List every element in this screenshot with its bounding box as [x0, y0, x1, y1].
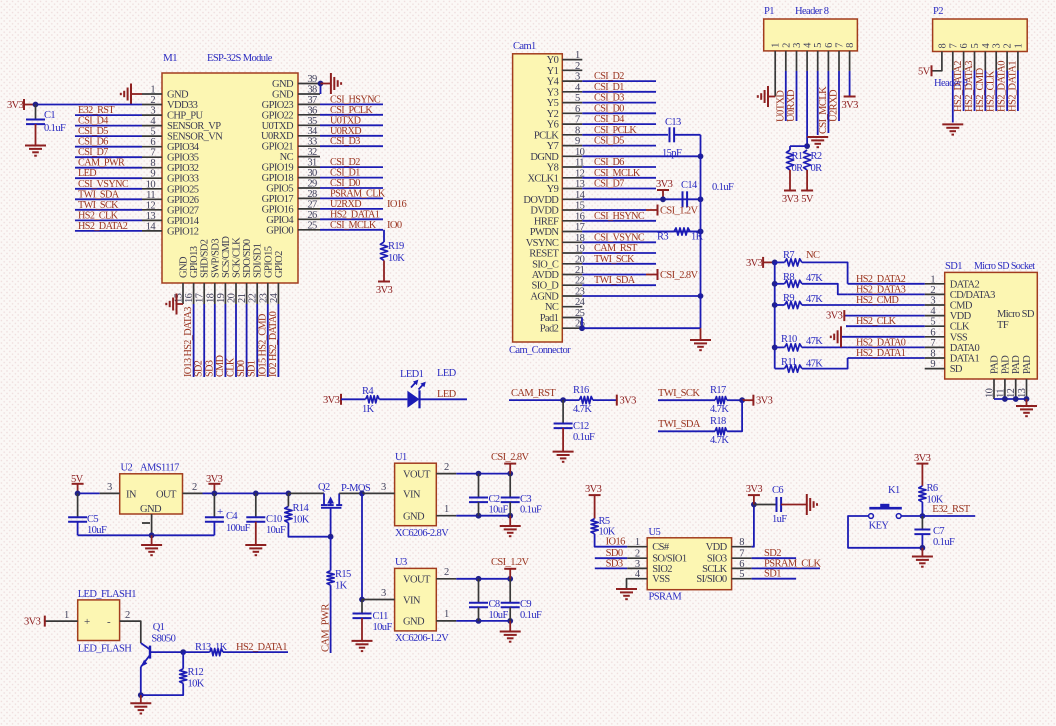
net label CAM_PWR — [321, 604, 332, 652]
U5 pin 1 name CS# — [652, 542, 670, 553]
U5 pin 4 stub — [627, 578, 647, 580]
Cam1 pin 25 number — [575, 308, 585, 319]
Cam1 pin 3 name Y4 — [547, 77, 560, 88]
label R8 — [783, 272, 794, 283]
value 4.7K of R17 — [710, 404, 729, 415]
net label SD2 — [194, 360, 205, 377]
comment Micro SD Socket — [974, 261, 1035, 272]
net label IO16 — [387, 199, 407, 210]
svg-text:5V: 5V — [918, 67, 931, 78]
wire net IO15 HS2_CMD — [267, 304, 269, 377]
U3 pin name GND — [403, 617, 425, 628]
label C8 — [489, 599, 500, 610]
svg-text:SCS/CMD: SCS/CMD — [221, 236, 232, 278]
value 1K of R15 — [335, 581, 348, 592]
svg-text:4.7K: 4.7K — [710, 404, 729, 415]
svg-text:GPIO2: GPIO2 — [274, 251, 285, 278]
Cam1 pin 25 name Pad1 — [540, 313, 559, 324]
svg-text:C7: C7 — [933, 526, 944, 537]
label C2 — [489, 494, 500, 505]
wire C12 to ground — [562, 428, 564, 452]
svg-text:HS2_DATA2: HS2_DATA2 — [78, 221, 128, 232]
wire net HS2_DATA0 — [848, 346, 925, 348]
svg-text:Cam_Connector: Cam_Connector — [509, 345, 571, 356]
net label HS2_DATA3 — [964, 61, 975, 112]
wire net CAM_RST — [582, 252, 656, 254]
net label CSI_D6 — [78, 137, 108, 148]
svg-text:HS2_DATA1: HS2_DATA1 — [856, 348, 906, 359]
net label CSI_D3 — [330, 136, 360, 147]
wire P1 pin 3 net U0RXD — [796, 71, 798, 121]
M1 pin 5 number — [150, 127, 155, 138]
wire P2 pin7 to ground — [952, 71, 954, 123]
Cam1 pin 8 stub — [562, 134, 582, 136]
net label CAM_RST — [594, 243, 638, 254]
svg-text:CSI_PCLK: CSI_PCLK — [330, 105, 373, 116]
comment PSRAM — [649, 592, 683, 603]
capacitor C6 — [777, 497, 782, 512]
wire Cam1 pin 17 to GND bus — [582, 231, 700, 233]
SD1 pin 9 number — [930, 359, 935, 370]
svg-text:PAD: PAD — [990, 355, 1001, 374]
svg-text:3V3: 3V3 — [376, 285, 393, 296]
svg-text:P-MOS: P-MOS — [341, 483, 371, 494]
wire U3 GND to ground — [509, 621, 511, 632]
resistor R11 — [785, 365, 802, 372]
net label TWI_SDA — [594, 275, 636, 286]
label C5 — [87, 514, 98, 525]
svg-text:C3: C3 — [520, 494, 531, 505]
junction on bus row 10 — [698, 153, 704, 159]
svg-text:U3: U3 — [395, 557, 407, 568]
SD1 pin 3 number — [930, 296, 935, 307]
M1 pin 6 number — [150, 137, 155, 148]
wire HS2_CLK left end — [846, 325, 848, 327]
M1 pin 11 number — [146, 190, 155, 201]
Cam1 pin 4 number — [575, 82, 581, 93]
svg-text:U0TXD: U0TXD — [330, 115, 361, 126]
svg-text:DVDD: DVDD — [530, 206, 559, 217]
svg-text:3: 3 — [381, 588, 386, 599]
net label TWI_SCK — [78, 200, 119, 211]
resistor R16 — [579, 397, 593, 404]
power port 3V3 left of pull-ups — [746, 257, 775, 269]
SD1 pin 12 stub — [1015, 379, 1017, 399]
M1 pin 22 number — [248, 293, 259, 303]
Cam1 pin 20 stub — [562, 263, 582, 265]
label C7 — [933, 526, 944, 537]
svg-text:CSI_MCLK: CSI_MCLK — [594, 168, 641, 179]
M1 pin 36 number — [307, 105, 317, 116]
M1 pin 33 name GPIO21 — [262, 142, 294, 153]
U5 pin 5 name SI/SIO0 — [696, 574, 727, 585]
wire P2 pin 3 net HS2_CLK — [995, 71, 997, 112]
push button K1 — [869, 504, 902, 519]
ground right of C6 — [807, 494, 817, 515]
svg-text:5: 5 — [970, 44, 981, 49]
svg-text:R9: R9 — [783, 293, 794, 304]
svg-text:U0RXD: U0RXD — [786, 89, 797, 122]
net label CSI_PCLK — [330, 105, 373, 116]
value 10K of R12 — [188, 679, 205, 690]
svg-text:GND: GND — [140, 504, 162, 515]
LED_FLASH1 plus sign — [84, 616, 90, 628]
svg-text:VIN: VIN — [403, 490, 421, 501]
Cam1 pin 8 name PCLK — [534, 130, 559, 141]
U2 pin 3 number — [107, 482, 112, 493]
svg-text:1K: 1K — [362, 404, 375, 415]
ground at P1 pin 5 — [807, 137, 828, 147]
junction pad 12 — [1013, 396, 1019, 402]
svg-text:HS2_CLK: HS2_CLK — [856, 316, 897, 327]
wire C8 top — [478, 579, 480, 603]
value 10uF of C5 — [87, 525, 107, 536]
comment Header 8 of P1 — [795, 6, 829, 17]
SD1 PAD pin name at pin 13 — [1022, 355, 1033, 374]
value 10K — [388, 253, 405, 264]
wire R6 to E32_RST node — [921, 502, 923, 516]
svg-text:5V: 5V — [801, 194, 814, 205]
ESP-32S module U-box M1 — [162, 73, 298, 283]
Cam1 pin 15 name DVDD — [530, 206, 559, 217]
wire net CSI_VSYNC — [75, 188, 142, 190]
svg-text:OUT: OUT — [156, 490, 177, 501]
value 10K of R14 — [293, 515, 310, 526]
svg-text:100uF: 100uF — [226, 523, 251, 534]
value 47K of R11 — [806, 359, 823, 370]
net label HS2_DATA0 — [856, 337, 906, 348]
ground at M1 pin 15 — [166, 294, 176, 315]
value 10K of R5 — [599, 527, 616, 538]
svg-text:VSS: VSS — [652, 574, 670, 585]
svg-text:3V3: 3V3 — [782, 194, 799, 205]
svg-text:R7: R7 — [783, 250, 794, 261]
junction VIN3/C11 — [359, 597, 365, 603]
U5 pin 2 stub — [627, 557, 647, 559]
wire pin25 down to R19 — [383, 230, 385, 242]
svg-text:10K: 10K — [388, 253, 405, 264]
SD1 pin 5 name CLK — [950, 322, 970, 333]
svg-text:4.7K: 4.7K — [710, 435, 729, 446]
P2 pin 8 number — [937, 44, 948, 49]
M1 pin 16 name GPIO13 — [189, 246, 200, 278]
svg-text:C12: C12 — [573, 421, 589, 432]
Cam1 pin 1 number — [575, 50, 580, 61]
svg-text:GPIO32: GPIO32 — [167, 163, 199, 174]
svg-text:PAD: PAD — [1011, 355, 1022, 374]
wire R19 to 3V3 — [383, 261, 385, 282]
power port 3V3 under R19 — [376, 282, 393, 297]
wire net IO13 HS2_DATA3 — [193, 304, 195, 377]
svg-text:CSI_D5: CSI_D5 — [78, 126, 108, 137]
power port 3V3 on DOVDD — [656, 179, 673, 199]
svg-text:HS2_CLK: HS2_CLK — [78, 210, 119, 221]
P1 pin 5 number — [813, 43, 824, 48]
wire net HS2_DATA1 — [320, 218, 383, 220]
svg-text:C9: C9 — [520, 599, 531, 610]
svg-text:DATA2: DATA2 — [950, 279, 980, 290]
svg-text:E32_RST: E32_RST — [932, 504, 970, 515]
wire R12 top — [182, 652, 184, 669]
svg-text:TWI_SCK: TWI_SCK — [658, 388, 700, 399]
net label LED — [437, 389, 457, 400]
wire Cam1 pin 10 to GND bus — [582, 155, 700, 157]
U1 pin 2 number — [444, 462, 449, 473]
svg-text:SENSOR_VN: SENSOR_VN — [167, 132, 223, 143]
Cam1 pin 16 stub — [562, 220, 582, 222]
M1 pin 32 number — [307, 147, 317, 158]
wire net SD0 — [246, 304, 248, 377]
net label IO15 HS2_CMD — [257, 314, 268, 377]
SD1 pin 8 name DATA1 — [950, 354, 980, 365]
net label U2RXD — [829, 89, 840, 122]
svg-text:VOUT: VOUT — [403, 470, 431, 481]
junction pad 13 — [1024, 396, 1030, 402]
M1 pin 31 stub — [298, 166, 320, 168]
U1 pin 1 number — [444, 504, 449, 515]
junction GND/C3 — [507, 513, 513, 519]
svg-text:6: 6 — [959, 44, 970, 49]
svg-text:3: 3 — [992, 44, 1003, 49]
ground under K1 — [912, 557, 933, 567]
Cam1 pin 4 stub — [562, 91, 582, 93]
SD1 pin 6 number — [930, 327, 935, 338]
svg-text:CSI_D5: CSI_D5 — [594, 136, 624, 147]
net label HS2_DATA3 — [856, 284, 906, 295]
wire P2 pin 6 net HS2_DATA2 — [963, 71, 965, 112]
net label HS2_DATA0 — [997, 61, 1008, 112]
M1 pin 25 stub — [298, 229, 320, 231]
capacitor C2 — [469, 498, 488, 503]
svg-text:3V3: 3V3 — [24, 617, 41, 628]
M1 pin 8 number — [150, 158, 155, 169]
U2 GND minus sign — [142, 522, 150, 524]
U5 pin 3 name SIO2 — [652, 564, 672, 575]
Cam1 pin 9 name Y7 — [547, 141, 559, 152]
svg-text:DOVDD: DOVDD — [523, 195, 559, 206]
wire net CSI_HSYNC — [582, 220, 656, 222]
Cam1 pin 23 name AGND — [530, 292, 559, 303]
net label CSI_D4 — [594, 114, 624, 125]
svg-text:U2RXD: U2RXD — [829, 89, 840, 122]
regulator box U3 — [395, 568, 437, 631]
M1 pin 31 number — [307, 158, 317, 169]
svg-text:R16: R16 — [573, 385, 589, 396]
capacitor C9 — [501, 603, 520, 608]
junction U2 GND/rail — [149, 532, 155, 538]
svg-text:R14: R14 — [293, 503, 310, 514]
net label TWI_SCK — [594, 254, 635, 265]
svg-text:Pad2: Pad2 — [540, 324, 559, 335]
wire pin38 up to pin39 node — [320, 84, 322, 95]
svg-text:10uF: 10uF — [87, 525, 107, 536]
wire net CSI_D5 — [582, 145, 656, 147]
svg-text:CLK: CLK — [226, 357, 237, 377]
wire LED1 cathode — [420, 398, 468, 400]
svg-text:Y7: Y7 — [547, 141, 559, 152]
M1 pin 17 stub — [203, 283, 205, 304]
label C14 — [681, 180, 698, 191]
U2 pin name GND — [140, 504, 162, 515]
U3 pin 2 number — [444, 567, 449, 578]
value 10uF of C8 — [489, 610, 509, 621]
M1 pin 9 name GPIO33 — [167, 174, 199, 185]
value 4.7K of R16 — [573, 404, 592, 415]
svg-text:IO0: IO0 — [387, 220, 402, 231]
power port 3V3 at TWI — [742, 395, 773, 407]
net label IO16 at U5 — [606, 537, 626, 548]
svg-text:R13: R13 — [195, 642, 211, 653]
U5 pin 6 stub — [732, 567, 752, 569]
P1 pin 5 stub — [817, 51, 819, 71]
M1 pin 27 stub — [298, 208, 320, 210]
Cam1 pin 15 stub — [562, 209, 582, 211]
M1 pin 32 stub — [298, 156, 320, 158]
net label HS2_DATA1 — [1007, 61, 1018, 112]
Cam1 pin 20 name SIO_C — [532, 259, 559, 270]
Cam1 pin 20 number — [575, 254, 585, 265]
svg-text:CSI_PCLK: CSI_PCLK — [594, 125, 637, 136]
label R12 — [188, 667, 204, 678]
svg-text:GND: GND — [272, 79, 294, 90]
net label CSI_MCLK — [594, 168, 641, 179]
junction VOUT/C3 — [507, 471, 513, 477]
Cam1 pin 21 stub — [562, 274, 582, 276]
svg-text:SD0: SD0 — [236, 360, 247, 377]
svg-text:CAM_PWR: CAM_PWR — [78, 158, 125, 169]
svg-text:AGND: AGND — [530, 292, 559, 303]
junction 3V3/C4 — [212, 491, 218, 497]
Cam1 pin 1 stub — [562, 59, 582, 61]
value 1K of R4 — [362, 404, 375, 415]
power port 3V3 at LED_FLASH1 — [24, 616, 45, 628]
svg-text:0R: 0R — [811, 163, 823, 174]
wire U1 GND to ground — [509, 516, 511, 526]
M1 pin 10 name GPIO25 — [167, 184, 199, 195]
svg-text:3V3: 3V3 — [826, 311, 843, 322]
svg-text:CSI_MCLK: CSI_MCLK — [818, 86, 829, 134]
Cam1 pin 9 stub — [562, 145, 582, 147]
svg-text:IN: IN — [126, 490, 137, 501]
label R19 — [388, 241, 404, 252]
wire R18 up to TWI node — [727, 400, 742, 431]
wire 3V3 row to Q2 source — [288, 492, 324, 494]
svg-text:CSI_VSYNC: CSI_VSYNC — [594, 232, 645, 243]
P2 pin 2 number — [1003, 44, 1014, 49]
svg-text:GPIO19: GPIO19 — [262, 163, 294, 174]
wire SD1 VDD to 3V3 — [844, 315, 924, 317]
U5 pin 3 stub — [627, 567, 647, 569]
M1 pin 14 number — [146, 221, 157, 232]
svg-text:TWI_SCK: TWI_SCK — [78, 200, 119, 211]
capacitor C1 — [26, 120, 45, 125]
net label CMD — [215, 355, 226, 377]
svg-text:1: 1 — [771, 43, 782, 48]
svg-text:3: 3 — [381, 482, 386, 493]
U1 pin 3 number — [381, 482, 386, 493]
SD1 pin 9 stub — [925, 368, 945, 370]
svg-text:SD3: SD3 — [204, 360, 215, 377]
M1 pin 16 number — [184, 293, 195, 303]
svg-text:GPIO15: GPIO15 — [263, 246, 274, 278]
svg-text:GPIO21: GPIO21 — [262, 142, 294, 153]
wire net CSI_D4 — [75, 125, 142, 127]
M1 pin 19 number — [216, 293, 227, 303]
P2 pin 6 stub — [963, 52, 965, 71]
svg-text:10K: 10K — [293, 515, 310, 526]
svg-text:U2RXD: U2RXD — [330, 199, 361, 210]
U5 pin 2 name SO/SIO1 — [652, 554, 687, 565]
svg-text:SIO_D: SIO_D — [532, 281, 560, 292]
svg-text:E32_RST: E32_RST — [78, 105, 115, 116]
P2 pin 2 stub — [1006, 52, 1008, 71]
ground at M1 pins 39/38 — [331, 73, 341, 94]
label R16 — [573, 385, 589, 396]
svg-text:3: 3 — [792, 43, 803, 48]
P1 pin 1 stub — [774, 51, 776, 71]
svg-text:HS2_CLK: HS2_CLK — [986, 70, 997, 112]
Cam1 pin 22 name SIO_D — [532, 281, 560, 292]
label C9 — [520, 599, 531, 610]
M1 pin 2 name VDD33 — [167, 100, 198, 111]
wire net CSI_PCLK — [582, 134, 656, 136]
P2 pin 1 number — [1013, 44, 1024, 49]
wire net CAM_RST — [509, 399, 579, 401]
wire net CSI_VSYNC — [582, 241, 656, 243]
svg-text:VDD: VDD — [950, 311, 972, 322]
svg-text:GND: GND — [167, 90, 189, 101]
M1 pin 26 number — [307, 210, 317, 221]
net label CAM_RST — [511, 388, 556, 399]
M1 pin 3 stub — [142, 114, 162, 116]
M1 pin 33 number — [307, 137, 317, 148]
designator P2 — [933, 6, 943, 17]
M1 pin 36 stub — [298, 114, 320, 116]
wire R14 bottom to gate node — [288, 523, 330, 537]
U5 pin 2 number — [635, 549, 640, 560]
label R5 — [599, 516, 610, 527]
M1 pin 34 stub — [298, 135, 320, 137]
value 0.1uF of C3 — [520, 505, 542, 516]
svg-text:XC6206-2.8V: XC6206-2.8V — [395, 528, 449, 539]
svg-text:0.1uF: 0.1uF — [520, 610, 542, 621]
junction pad 11 — [1002, 396, 1008, 402]
M1 pin 23 name GPIO15 — [263, 246, 274, 278]
comment Header 8 of P2 — [934, 78, 968, 89]
svg-text:CSI_D0: CSI_D0 — [330, 178, 360, 189]
M1 pin 37 stub — [298, 103, 320, 105]
svg-text:GPIO4: GPIO4 — [266, 215, 294, 226]
svg-text:3V3: 3V3 — [746, 258, 763, 269]
svg-text:GPIO33: GPIO33 — [167, 174, 199, 185]
power port 3V3 above R6 — [914, 453, 931, 486]
wire U5 VSS to ground — [626, 579, 629, 589]
wire U2 OUT to 3V3 row — [183, 492, 289, 494]
svg-text:R3: R3 — [657, 232, 668, 243]
svg-text:CSI_1.2V: CSI_1.2V — [491, 557, 530, 568]
wire net CSI_D6 — [582, 166, 656, 168]
label R15 — [335, 569, 351, 580]
M1 pin 13 number — [146, 211, 156, 222]
Cam1 pin 24 number — [575, 297, 586, 308]
M1 pin 39 number — [307, 74, 317, 85]
wire net U2RXD — [320, 208, 383, 210]
wire R10 to HS2_DATA0 row — [802, 346, 848, 348]
svg-text:PAD: PAD — [1000, 355, 1011, 374]
ground at M1 pin 1 — [121, 84, 131, 105]
svg-text:C2: C2 — [489, 494, 500, 505]
SD1 pin 5 stub — [925, 325, 945, 327]
